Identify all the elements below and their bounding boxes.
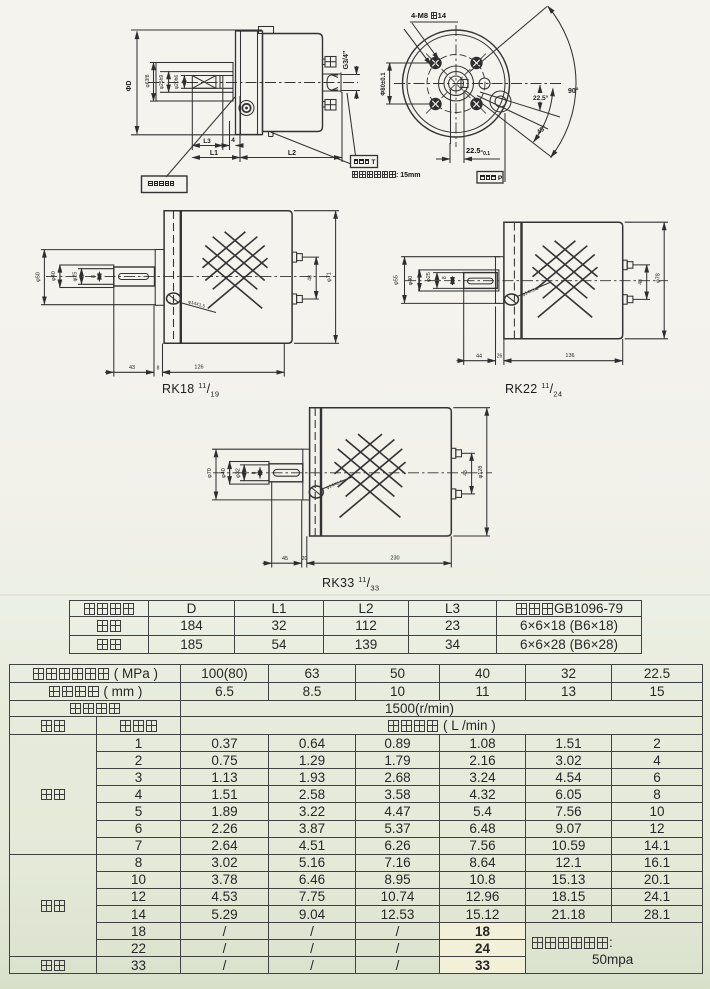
RK18 valve plate thick line	[180, 211, 182, 343]
RK33 shaft keyed section	[269, 464, 303, 482]
RK22 dim phi55	[394, 257, 501, 304]
RK33 dim phi32	[236, 465, 270, 481]
pump body	[263, 34, 323, 132]
bolt hole top-right	[470, 57, 482, 69]
svg-text:48: 48	[308, 275, 314, 281]
RK18 dim key depth	[91, 272, 99, 282]
leader to coupling flange label	[166, 97, 235, 177]
shaft with key	[181, 76, 233, 89]
RK18 dim phi40	[51, 265, 60, 288]
RK33 gasket dashed line	[314, 408, 316, 536]
RK33 body	[310, 408, 452, 536]
RK22 right port tab top	[623, 260, 633, 270]
faint scan fold line	[0, 594, 710, 596]
leader to return port P box	[504, 113, 506, 182]
svg-text:136: 136	[565, 353, 574, 359]
RK18 body	[164, 211, 292, 344]
RK22 dim phi40	[408, 270, 420, 291]
dimension phi-25h9	[159, 72, 169, 93]
dimension 4	[222, 121, 243, 150]
RK33 bottom dims	[263, 483, 452, 568]
small port hole	[479, 78, 490, 89]
bottom drain port	[269, 132, 274, 137]
RK33 shaft flange	[303, 449, 310, 500]
model name RK18	[162, 381, 219, 399]
svg-text:45°: 45°	[535, 123, 548, 136]
svg-text:8: 8	[442, 276, 448, 279]
svg-text:φ32: φ32	[236, 468, 242, 478]
svg-text:90°: 90°	[568, 87, 579, 95]
RK18 right port tab top	[292, 252, 302, 262]
dimension L1	[192, 96, 240, 162]
RK22 bolt thread label	[517, 282, 551, 297]
RK22 body height dim	[625, 222, 668, 339]
lower-right port boss	[490, 91, 511, 112]
RK22 flange bolt	[505, 294, 519, 305]
RK18 flange bolt	[167, 293, 181, 304]
RK18 centerline	[46, 276, 338, 278]
RK33 bolt thread label	[322, 477, 352, 490]
RK33 hub	[230, 462, 269, 485]
inlet port T box text	[354, 159, 376, 166]
top boss	[259, 27, 274, 34]
svg-text:8: 8	[252, 471, 258, 474]
svg-text:φ55: φ55	[394, 275, 400, 285]
cross-hatch lattice RK22	[533, 241, 598, 318]
svg-text:φ71: φ71	[327, 272, 333, 282]
RK22 hub	[419, 270, 499, 291]
slot dimension 22.5	[466, 147, 490, 158]
cross-hatch lattice RK33	[335, 434, 406, 517]
svg-text:L2: L2	[288, 150, 296, 157]
svg-text:φ25h9: φ25h9	[159, 75, 165, 90]
flange screw	[239, 101, 254, 116]
dimension L2	[240, 92, 342, 162]
bolt hole bottom-left	[429, 98, 441, 110]
RK18 dim phi50	[36, 250, 157, 305]
RK33 right port tab bottom	[451, 489, 461, 499]
RK33 dim phi70	[207, 449, 303, 500]
svg-text:26: 26	[497, 354, 503, 360]
dimension phi-63f8	[145, 63, 158, 102]
svg-text:φ128: φ128	[478, 466, 484, 479]
inner rim circle	[407, 35, 505, 133]
dimension phi-D vertical	[126, 30, 262, 135]
upper 45deg ray	[470, 7, 547, 72]
RK22 dim phi25	[426, 272, 464, 288]
svg-text:φ63f8: φ63f8	[145, 74, 151, 87]
dimension L3	[192, 89, 223, 150]
RK18 gasket dashed line	[173, 211, 175, 343]
RK18 bottom dims	[105, 287, 284, 377]
inlet port T label box	[351, 156, 378, 168]
svg-text:8: 8	[91, 275, 97, 278]
svg-text:45: 45	[282, 556, 288, 562]
return port P box text	[480, 175, 502, 182]
svg-text:ΦD: ΦD	[126, 81, 133, 92]
coupling flange box text	[148, 181, 175, 188]
svg-text:126: 126	[194, 365, 203, 371]
RK22 dim key	[442, 276, 453, 285]
22.5 degree dimension	[533, 85, 549, 111]
return port P label box	[477, 172, 503, 184]
right bolt bottom	[323, 100, 337, 111]
RK22 bottom dims	[457, 289, 623, 366]
svg-text:43: 43	[129, 365, 135, 371]
lower 40deg ray	[466, 91, 552, 158]
leader to inlet T box	[271, 132, 352, 164]
RK33 dim phi40	[221, 462, 230, 485]
svg-text:G3/4”: G3/4”	[343, 51, 350, 70]
leader from fitting to inlet T box	[347, 93, 356, 156]
svg-text:L3: L3	[203, 138, 211, 145]
RK22 shaft keyed section	[464, 273, 498, 289]
svg-text:8: 8	[157, 366, 160, 372]
RK22 gasket dashed line	[513, 223, 515, 339]
svg-text:48: 48	[638, 279, 644, 285]
RK22 body	[504, 222, 623, 339]
centerline	[148, 82, 358, 84]
RK18 bolt thread label M14x1.5	[180, 299, 216, 312]
model name RK33	[322, 575, 379, 593]
cross-hatch lattice RK18	[203, 232, 268, 309]
svg-text:φ25: φ25	[426, 272, 432, 282]
vertical centerline	[455, 25, 457, 147]
dimensions table (D/L1/L2/L3)	[69, 600, 642, 654]
svg-text:22.5°: 22.5°	[533, 94, 549, 102]
svg-text:φ25: φ25	[73, 272, 79, 282]
specification table	[9, 664, 703, 974]
RK22 shaft flange	[496, 257, 504, 304]
svg-text:φ78: φ78	[656, 273, 662, 283]
bearing hub	[156, 63, 233, 102]
svg-text:48: 48	[463, 470, 469, 476]
svg-text:φ50: φ50	[36, 272, 42, 282]
outlet fitting G3/4	[323, 73, 342, 93]
RK33 centerline	[213, 472, 492, 474]
RK33 valve plate thick line	[320, 408, 322, 536]
svg-text:20: 20	[302, 556, 308, 562]
svg-text:Φ80±0.1: Φ80±0.1	[381, 72, 387, 96]
RK18 shaft keyed section	[114, 267, 155, 286]
horizontal centerline	[394, 83, 562, 85]
svg-text:230: 230	[390, 556, 399, 562]
svg-text:φ40: φ40	[51, 271, 57, 281]
RK18 hub	[60, 265, 114, 288]
90 degree arc	[548, 6, 576, 157]
RK18 shaft flange	[155, 250, 164, 306]
max screw-in length note	[351, 171, 421, 180]
coupling flange label box	[142, 176, 188, 193]
45 degree arc	[534, 89, 553, 142]
RK33 tab spacing dim	[462, 453, 476, 494]
RK18 dim phi25	[73, 269, 115, 285]
svg-text:44: 44	[476, 354, 482, 360]
fitting height dimension	[341, 66, 360, 99]
RK22 tab spacing dim	[633, 265, 650, 300]
bolt hole bottom-right	[470, 98, 482, 110]
svg-text:φ20h6: φ20h6	[174, 75, 180, 90]
svg-text:4: 4	[231, 137, 235, 144]
vertical slot	[451, 90, 465, 144]
RK18 right port tab bottom	[292, 294, 302, 304]
4-M8 depth 14 label	[411, 12, 446, 20]
RK18 tab spacing dim	[302, 257, 319, 299]
phi-80 dimension	[381, 63, 436, 104]
4-M8 label leader	[404, 22, 458, 65]
svg-text:φ40: φ40	[221, 468, 227, 478]
RK18 body height dim	[294, 211, 339, 344]
mounting flange plate	[236, 31, 263, 135]
RK22 valve plate thick line	[520, 223, 522, 339]
svg-text:L1: L1	[210, 150, 218, 157]
bolt circle dashed	[427, 55, 485, 113]
bottom slot dimension 22.5	[436, 143, 500, 163]
center shaft circles	[439, 66, 474, 101]
svg-text:φ40: φ40	[408, 276, 414, 286]
diagonal centerlines through bolts	[426, 54, 486, 114]
rays through port boss	[480, 92, 560, 117]
svg-text:φ70: φ70	[207, 468, 213, 478]
RK33 body height dim	[453, 408, 490, 536]
bolt hole top-left	[429, 57, 441, 69]
RK33 flange bolt	[309, 486, 323, 498]
RK33 dim key	[252, 468, 261, 479]
RK22 right port tab bottom	[623, 295, 633, 305]
model name RK22	[505, 381, 562, 399]
outer flange circle	[403, 30, 510, 137]
right bolt top	[323, 57, 337, 68]
dimension phi-20h6	[174, 75, 185, 90]
RK33 right port tab top	[451, 448, 461, 458]
RK22 centerline	[405, 280, 668, 282]
